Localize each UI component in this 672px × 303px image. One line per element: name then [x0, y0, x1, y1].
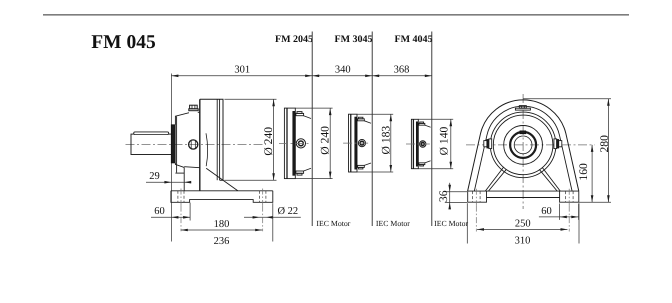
svg-text:301: 301 [234, 65, 250, 76]
flange F2 (FM 3045) top clamp bolt [359, 117, 363, 119]
svg-text:FM 3045: FM 3045 [334, 34, 372, 45]
flange view F3 (FM 4045) disc [411, 119, 418, 168]
front view horizontal centerline [466, 144, 595, 146]
dimension 160 [591, 145, 593, 202]
svg-text:Ø 22: Ø 22 [277, 206, 298, 217]
bore bold ring [510, 132, 536, 158]
svg-text:FM 045: FM 045 [91, 32, 156, 53]
right gusset [542, 167, 560, 191]
dimension 368 [372, 75, 379, 78]
svg-text:IEC Motor: IEC Motor [434, 219, 468, 228]
right foot [560, 191, 579, 202]
body junction lines [216, 99, 218, 180]
flange F3 (FM 4045) mounting bar [416, 122, 418, 166]
right clamp boss [554, 139, 557, 149]
svg-text:310: 310 [515, 236, 531, 247]
svg-text:IEC Motor: IEC Motor [376, 219, 410, 228]
foot bolt hole left [177, 191, 179, 203]
motor body [200, 99, 223, 180]
flange F2 (FM 3045) centerline [343, 142, 370, 144]
dimension 180 [181, 229, 262, 231]
svg-text:280: 280 [598, 135, 611, 153]
oil plug circle [189, 140, 198, 149]
base recess line [487, 197, 560, 199]
svg-text:Ø 140: Ø 140 [438, 126, 451, 155]
svg-text:Ø 240: Ø 240 [319, 126, 332, 155]
hub bottom line to body [184, 167, 200, 168]
flange face bar [171, 125, 175, 163]
svg-text:60: 60 [541, 206, 552, 217]
dimension diameter 22 [244, 216, 301, 218]
gusset diagonal [206, 168, 238, 191]
svg-text:Ø 183: Ø 183 [380, 126, 393, 155]
bearing circle outer [490, 112, 556, 178]
dimension 301 [171, 75, 431, 77]
flange view F1 (FM 2045) disc [284, 108, 295, 179]
flange F1 (FM 2045) top clamp bolt [297, 112, 302, 114]
svg-text:236: 236 [214, 236, 230, 247]
svg-text:180: 180 [214, 219, 230, 230]
base top line [468, 190, 579, 192]
foot bolt hole right [259, 191, 261, 203]
front view vertical centerline [522, 94, 524, 209]
left foot [468, 191, 487, 202]
side view centerline [126, 143, 267, 145]
svg-text:368: 368 [394, 65, 410, 76]
shaft key [134, 132, 169, 135]
extension line at flange face [170, 74, 172, 242]
flange F2 (FM 3045) mounting bar [355, 117, 357, 169]
flange F1 (FM 2045) centerline [279, 142, 310, 144]
svg-text:29: 29 [149, 171, 160, 182]
hub outline top [175, 113, 189, 125]
divider line 2 [371, 32, 373, 227]
divider line 1 [311, 32, 313, 227]
bore circle [514, 136, 532, 154]
flange F1 (FM 2045) shaft hole [296, 139, 305, 148]
flange F3 (FM 4045) bottom clamp bolt [419, 163, 425, 165]
dimension 250 [477, 228, 568, 230]
svg-text:340: 340 [335, 65, 351, 76]
flange view F2 (FM 3045) disc [349, 114, 358, 172]
svg-text:36: 36 [437, 190, 450, 202]
top rule [43, 14, 629, 16]
dimension 280 [523, 98, 611, 100]
svg-text:160: 160 [577, 163, 590, 181]
svg-text:IEC Motor: IEC Motor [316, 219, 350, 228]
keyway [520, 131, 526, 134]
dimension Ø 140 flange F3 (FM 4045) [419, 118, 454, 120]
hub outline bottom [175, 163, 184, 168]
dimension 340 [312, 75, 319, 78]
housing inner arch [474, 106, 572, 191]
right foot bolt [564, 191, 566, 202]
casting curve [206, 133, 208, 166]
left foot bolt [471, 191, 473, 202]
flange F3 (FM 4045) centerline [406, 143, 430, 145]
shaft [131, 134, 172, 154]
dimension diameter 240 side view [224, 98, 276, 100]
divider line 3 [431, 32, 433, 227]
flange F3 (FM 4045) top clamp bolt [420, 122, 424, 123]
bracket front edge [183, 167, 185, 190]
vent bolt on hub [190, 105, 198, 109]
bearing circle 2 [493, 115, 553, 175]
svg-text:250: 250 [515, 219, 531, 230]
dimension 60 side view [151, 216, 190, 218]
housing outer arch [468, 100, 579, 191]
dimension 29 [146, 181, 191, 183]
svg-text:FM 4045: FM 4045 [394, 34, 432, 45]
flange F1 (FM 2045) bottom clamp bolt [296, 171, 304, 173]
dimension Ø 240 flange F1 (FM 2045) [296, 107, 333, 109]
hub circle [504, 125, 543, 164]
left clamp boss [484, 141, 487, 147]
svg-text:60: 60 [154, 206, 165, 217]
flange F3 (FM 4045) shaft hole [420, 141, 426, 147]
base plate side view [171, 190, 273, 192]
flange F2 (FM 3045) bottom clamp bolt [358, 165, 365, 167]
dimension 60 front view [539, 216, 579, 218]
dimension Ø 183 flange F2 (FM 3045) [357, 113, 393, 115]
top nut [519, 106, 526, 109]
svg-text:FM 2045: FM 2045 [275, 34, 313, 45]
svg-text:Ø 240: Ø 240 [262, 127, 275, 156]
flange F2 (FM 3045) shaft hole [358, 140, 365, 147]
left gusset [485, 167, 503, 191]
dimension 36 [445, 191, 467, 193]
flange F1 (FM 2045) mounting bar [293, 111, 295, 175]
